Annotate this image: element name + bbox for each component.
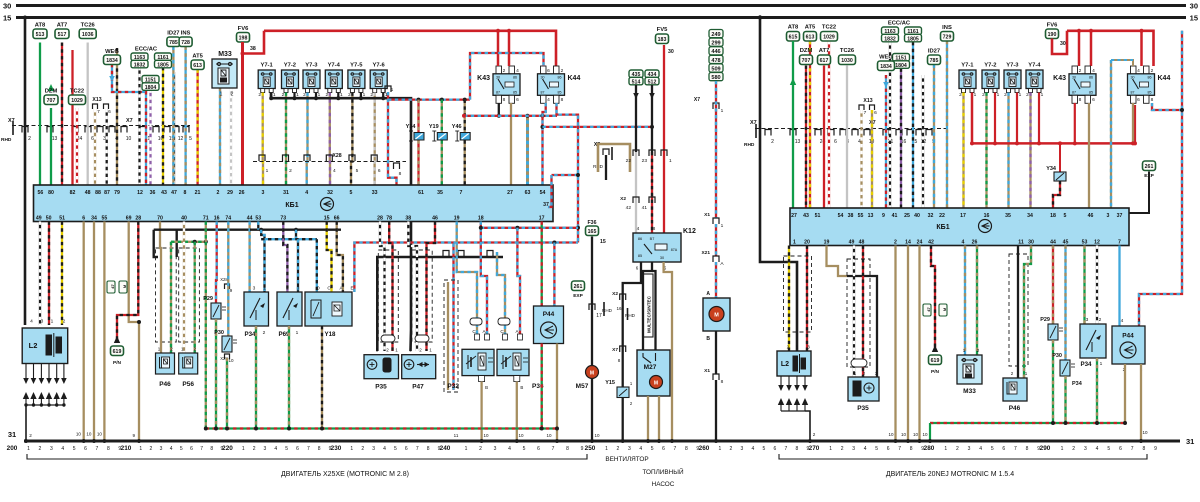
svg-text:Y34: Y34 (1046, 166, 1057, 172)
arrow 434 (649, 93, 655, 99)
svg-text:4: 4 (61, 446, 64, 452)
connector X7 right pin 12 (916, 130, 922, 136)
wire WEG blue-red (112, 64, 146, 185)
wire fan motor to X1-8 (715, 331, 717, 374)
svg-text:87: 87 (541, 91, 545, 95)
svg-text:41: 41 (642, 205, 648, 211)
sensor P34 left (244, 292, 269, 326)
svg-text:B7: B7 (650, 237, 655, 241)
wire pin73 to P69 pin2 (283, 222, 287, 293)
svg-text:Y46: Y46 (452, 124, 462, 130)
connector X7 right pin 4 (852, 130, 858, 136)
svg-text:87: 87 (1072, 91, 1076, 95)
wire K43 pin6 tan to pin 27 (510, 103, 512, 185)
arrow on DZM wire (48, 84, 54, 91)
svg-text:4: 4 (962, 240, 965, 246)
svg-text:ID27: ID27 (928, 49, 940, 55)
svg-text:6: 6 (405, 446, 408, 452)
wire INS right (946, 41, 948, 208)
svg-text:1: 1 (139, 446, 142, 452)
wire pin1r to L2 (788, 246, 790, 352)
svg-text:P44: P44 (543, 311, 555, 318)
svg-text:82: 82 (70, 190, 76, 196)
wire M57 to bus (591, 379, 593, 442)
label ID27 785 right (928, 55, 941, 65)
wire pin17 green-red (541, 222, 543, 307)
wire tan-black pin 79 (116, 48, 118, 185)
svg-text:K44: K44 (1158, 75, 1171, 82)
wire Y7-5 pin2 to X28 (351, 93, 352, 186)
svg-text:70: 70 (157, 216, 163, 222)
wire Y7 pin1 stub (382, 93, 384, 99)
svg-text:25: 25 (904, 213, 910, 219)
svg-text:15: 15 (600, 239, 606, 245)
svg-text:41: 41 (892, 213, 898, 219)
wire Y7 pin1 stub (337, 93, 339, 99)
wire shield black to P35r (847, 276, 877, 377)
wire tan-blue to pin 3 (1110, 60, 1112, 208)
label DZM 707 (44, 95, 58, 105)
svg-text:Y7-2: Y7-2 (284, 63, 296, 69)
wire Y7r pin1 red stub (1016, 93, 1018, 144)
red-blue link H1 (481, 227, 578, 229)
svg-text:15: 15 (1190, 14, 1198, 23)
svg-text:220: 220 (222, 445, 233, 452)
svg-text:2: 2 (1072, 446, 1075, 452)
label 261 EKP left (572, 281, 585, 291)
wire ID27 right (933, 65, 935, 209)
wire P30 out (226, 358, 228, 429)
svg-text:FV6: FV6 (238, 26, 249, 32)
svg-text:1805: 1805 (157, 62, 169, 68)
wire K44 pin8 down mid (557, 103, 579, 243)
svg-text:49: 49 (36, 216, 42, 222)
svg-text:74: 74 (225, 216, 231, 222)
svg-text:M: M (590, 371, 594, 377)
svg-text:8: 8 (1142, 446, 1145, 452)
wire X13-6 right (871, 110, 873, 208)
black branch right shield collector (411, 256, 503, 259)
wire screened red to Y18-E (354, 243, 453, 391)
label ECC/AC 1163 1832 (131, 53, 148, 61)
svg-text:AT7: AT7 (57, 23, 68, 29)
svg-text:4: 4 (333, 168, 336, 174)
svg-text:785: 785 (169, 40, 178, 46)
svg-text:210: 210 (121, 445, 132, 452)
svg-text:13: 13 (52, 136, 58, 142)
svg-text:B: B (485, 385, 488, 390)
connector X7 pin 1 fan (713, 103, 719, 109)
wire pin69 tan jog to bus (129, 222, 139, 442)
wire tan to bus right (918, 246, 920, 442)
connector X7 pin 5 (183, 127, 189, 133)
wire red drop K44r pin4 (1140, 31, 1143, 66)
label 435 514 (629, 70, 643, 78)
svg-text:4: 4 (1121, 318, 1124, 324)
wire K43r pin6 tan to pin46 (1088, 103, 1090, 208)
svg-text:86: 86 (638, 237, 642, 241)
label AT7 617 right (818, 55, 831, 65)
svg-text:1804: 1804 (895, 63, 907, 69)
svg-text:КБ1: КБ1 (936, 224, 949, 231)
svg-text:2: 2 (813, 432, 816, 437)
svg-text:P29: P29 (203, 296, 213, 302)
wire pin70 tan to P46 (160, 222, 161, 354)
svg-text:Y7-1: Y7-1 (961, 63, 974, 69)
svg-text:24: 24 (917, 240, 923, 246)
connector X7 pin 4 (109, 127, 115, 133)
wire 1804 right (900, 69, 902, 209)
wire P29 out (215, 319, 217, 429)
svg-text:15: 15 (324, 216, 330, 222)
label INS 729 right (941, 32, 954, 42)
svg-text:56: 56 (38, 190, 44, 196)
svg-text:Y7-6: Y7-6 (372, 63, 385, 69)
svg-text:53: 53 (255, 216, 261, 222)
svg-text:3: 3 (253, 286, 256, 292)
svg-text:12: 12 (178, 136, 184, 142)
svg-text:2: 2 (617, 446, 620, 452)
green collector line right (930, 422, 1125, 424)
label AT8 615 right (787, 32, 800, 42)
wire Y7-1 pin2 to X28 (262, 93, 265, 186)
red-blue riser with X28 pin 8 (388, 92, 397, 185)
wire Y7r-1 pin2 down (962, 93, 964, 209)
wire tan K44r pin6 (1132, 103, 1134, 143)
svg-text:55: 55 (102, 216, 108, 222)
label WEG 1834 right (878, 61, 895, 71)
fuel pump M57 (586, 366, 599, 379)
svg-text:53: 53 (1082, 240, 1088, 246)
svg-text:31: 31 (283, 190, 289, 196)
svg-text:3: 3 (628, 446, 631, 452)
svg-text:17: 17 (596, 313, 602, 319)
svg-text:DZM: DZM (45, 89, 58, 95)
svg-text:5: 5 (73, 446, 76, 452)
svg-text:27: 27 (507, 190, 513, 196)
svg-text:ECC/AC: ECC/AC (888, 21, 911, 27)
ignition coil L2 right (777, 351, 811, 376)
svg-text:86: 86 (1089, 76, 1093, 80)
svg-text:1: 1 (997, 92, 1000, 98)
wire K44 pin4 to pin 54 (543, 103, 546, 185)
wire L2 ground to bus (25, 405, 27, 441)
label FV5 183 (656, 34, 669, 44)
svg-text:P35: P35 (857, 405, 869, 412)
svg-text:615: 615 (789, 34, 798, 40)
svg-text:44: 44 (1050, 240, 1056, 246)
svg-text:183: 183 (658, 37, 667, 43)
red power bus top right half (1067, 31, 1154, 66)
svg-text:2: 2 (63, 319, 66, 325)
connector X7 pin 13 (47, 127, 53, 133)
svg-text:19: 19 (454, 216, 460, 222)
svg-text:18: 18 (478, 216, 484, 222)
svg-text:НАСОС: НАСОС (652, 481, 675, 488)
svg-text:86: 86 (1148, 76, 1152, 80)
svg-text:613: 613 (806, 34, 815, 40)
wire K12-2 black to M27 left (643, 262, 652, 350)
svg-text:26: 26 (239, 190, 245, 196)
svg-text:69: 69 (126, 216, 132, 222)
sensor P69 (277, 292, 302, 326)
connector X7 right pin 2 (765, 130, 771, 136)
svg-text:260: 260 (699, 445, 710, 452)
svg-text:M33: M33 (218, 51, 232, 58)
svg-text:AT7: AT7 (819, 48, 830, 54)
svg-text:198: 198 (239, 35, 248, 41)
svg-text:K12: K12 (683, 228, 696, 235)
screen box P47 pair (412, 250, 432, 342)
connector X28 row (dashed) (253, 161, 406, 163)
connector X7 right pin 6 (828, 130, 834, 136)
red-blue riser to K44 pin6 (470, 53, 544, 100)
svg-text:1: 1 (350, 446, 353, 452)
wire INS blue-tan (184, 47, 186, 186)
svg-text:P35: P35 (375, 384, 387, 391)
svg-text:17: 17 (960, 213, 966, 219)
svg-text:L2: L2 (781, 361, 789, 368)
svg-text:1: 1 (296, 330, 299, 336)
wire through Y19 (441, 100, 443, 185)
connector X2 pin 41 (649, 197, 655, 203)
svg-text:16: 16 (984, 213, 990, 219)
screen box P56 wires (179, 248, 200, 342)
label FV6 198 (237, 33, 250, 43)
svg-text:8: 8 (503, 97, 506, 103)
svg-text:435: 435 (632, 72, 641, 78)
wire Y7 pin1 stub (360, 93, 362, 99)
svg-text:707: 707 (802, 58, 811, 64)
svg-text:165: 165 (588, 229, 597, 235)
connector X7 pin 3 (97, 127, 103, 133)
svg-text:6: 6 (84, 446, 87, 452)
svg-text:Y7-3: Y7-3 (305, 63, 318, 69)
svg-text:5: 5 (350, 190, 353, 196)
wire black-white right (922, 75, 924, 208)
svg-text:20: 20 (804, 240, 810, 246)
wire: left edge black vertical to L2 (24, 18, 27, 326)
wire Y7-3 pin2 to X28 (306, 93, 309, 186)
red-blue link H2 (454, 241, 579, 243)
svg-text:6: 6 (378, 168, 381, 174)
wire Y7r pin1 red stub (1038, 93, 1040, 144)
svg-text:512: 512 (648, 79, 657, 85)
svg-text:1029: 1029 (823, 34, 835, 40)
wire to P69 pin3 (297, 239, 299, 292)
svg-text:WEG: WEG (105, 49, 119, 55)
black bus linking Y7 pin1 (271, 93, 411, 352)
svg-text:1161: 1161 (157, 55, 168, 61)
connector X28 pin 9 (225, 284, 230, 289)
ferrite P35r (851, 359, 867, 367)
black branch to P35 pin3 (377, 257, 411, 351)
connector X2 pin 42 (633, 197, 639, 203)
svg-text:32: 32 (928, 213, 934, 219)
svg-text:TC22: TC22 (70, 89, 84, 95)
svg-text:54: 54 (838, 213, 844, 219)
label AT5 613 (191, 60, 204, 70)
black shield collector left (154, 228, 250, 230)
svg-text:30: 30 (668, 49, 674, 55)
svg-text:8: 8 (427, 446, 430, 452)
label 1151 1804 right (893, 54, 910, 62)
svg-text:46: 46 (432, 216, 438, 222)
wire K12-5 tan to bus (664, 262, 672, 441)
ferrite P32 (470, 318, 482, 325)
wire M27 out left (647, 396, 649, 441)
svg-text:40: 40 (181, 216, 187, 222)
svg-text:17: 17 (539, 216, 545, 222)
label FV6 190 (1046, 29, 1059, 39)
wire to Y18 pin D (316, 239, 318, 292)
label WEG 1834 (104, 55, 121, 65)
svg-text:86: 86 (513, 76, 517, 80)
svg-text:27: 27 (791, 213, 797, 219)
connector X7 pin 15 (164, 127, 170, 133)
wire pin15 to Y18-C (327, 222, 332, 293)
svg-text:2: 2 (1099, 317, 1102, 323)
wire pin74 to P30 (227, 222, 228, 337)
svg-text:2: 2 (29, 433, 32, 438)
label ECC/AC 1161 1805 (155, 53, 172, 61)
wire M33-1 blue-tan (219, 88, 221, 185)
connector X28 pin 10 (225, 354, 230, 359)
svg-text:TC26: TC26 (840, 48, 855, 54)
svg-text:86: 86 (558, 76, 562, 80)
red-blue link to K12 feed (543, 126, 653, 128)
svg-text:240: 240 (440, 445, 451, 452)
svg-text:10: 10 (913, 432, 919, 437)
svg-text:10: 10 (76, 432, 82, 437)
svg-text:4: 4 (30, 319, 33, 325)
svg-text:X28: X28 (332, 153, 341, 159)
svg-text:7: 7 (898, 446, 901, 452)
svg-text:3: 3 (852, 446, 855, 452)
svg-text:ТОПЛИВНЫЙ: ТОПЛИВНЫЙ (642, 467, 684, 476)
svg-text:23: 23 (642, 158, 648, 164)
label 434 512 (645, 70, 659, 78)
svg-text:85: 85 (1148, 91, 1152, 95)
svg-text:8: 8 (561, 97, 564, 103)
svg-text:8: 8 (1151, 97, 1154, 103)
wire ID27 tan-blue (172, 47, 174, 186)
connector X28 pin (304, 155, 310, 161)
svg-text:1832: 1832 (884, 36, 896, 42)
wire pin66 to Y18-A (337, 222, 343, 293)
bracket engine 20NEJ (779, 454, 1147, 459)
svg-text:AT8: AT8 (788, 25, 799, 31)
svg-text:80: 80 (48, 190, 54, 196)
wire red drop K43 pin2 (497, 31, 500, 66)
wire pin45r to P30r (1064, 246, 1066, 361)
svg-text:WEG: WEG (879, 55, 893, 61)
svg-text:4: 4 (516, 68, 519, 74)
svg-text:3: 3 (741, 446, 744, 452)
label ECC/AC right 1163 1832 (882, 27, 899, 35)
svg-text:5: 5 (1107, 446, 1110, 452)
svg-text:3: 3 (1086, 317, 1089, 323)
svg-text:1805: 1805 (907, 36, 919, 42)
svg-text:3: 3 (1084, 446, 1087, 452)
svg-text:10: 10 (126, 136, 132, 142)
svg-text:DZM: DZM (800, 48, 813, 54)
striped collector (261, 238, 317, 240)
svg-text:INS: INS (181, 31, 191, 37)
svg-text:4: 4 (864, 446, 867, 452)
svg-text:Y18: Y18 (324, 331, 336, 338)
svg-text:3: 3 (264, 446, 267, 452)
svg-text:P/N: P/N (113, 360, 122, 366)
svg-text:10: 10 (483, 433, 489, 438)
svg-text:7: 7 (200, 446, 203, 452)
svg-text:X13: X13 (863, 98, 872, 104)
connector X28 pin 5 (349, 155, 355, 161)
svg-text:48: 48 (85, 190, 91, 196)
svg-text:7: 7 (97, 109, 100, 115)
svg-text:2: 2 (258, 92, 261, 98)
wire to fan motor (715, 262, 717, 298)
connector X28 pin 1 (259, 155, 265, 161)
connector X21 pin A (713, 256, 719, 262)
svg-text:2: 2 (479, 446, 482, 452)
junction pin63 on link (526, 114, 530, 118)
wire 514 gray lower (635, 152, 637, 233)
svg-text:9: 9 (132, 433, 135, 438)
connector X7 right pin 24 (815, 130, 821, 136)
svg-text:5: 5 (1064, 213, 1067, 219)
wire WEG right blue-red (885, 75, 887, 208)
junctions on red bus (496, 29, 500, 33)
wire red drop K43r pin4 (1090, 31, 1093, 66)
wire pin44r to P29r (1052, 246, 1054, 325)
wire pin49r to P35r (853, 246, 855, 378)
connector X7 pin 8 mid (620, 346, 626, 352)
svg-text:6: 6 (91, 136, 94, 142)
wire pin18 to P32-A (481, 222, 487, 335)
svg-text:30: 30 (1060, 41, 1066, 47)
svg-text:P34: P34 (1072, 381, 1083, 387)
svg-text:4: 4 (274, 446, 277, 452)
wire F36 black down (591, 237, 593, 366)
svg-text:12: 12 (1094, 240, 1100, 246)
junction H2 (552, 241, 556, 245)
svg-text:66: 66 (334, 216, 340, 222)
label AT8 513 (33, 29, 47, 39)
svg-text:22: 22 (939, 213, 945, 219)
svg-text:1030: 1030 (841, 58, 853, 64)
svg-text:71: 71 (203, 216, 209, 222)
wire Y7r pin1 red stub (994, 93, 996, 144)
svg-text:30: 30 (496, 76, 500, 80)
tan link corner (598, 144, 630, 172)
svg-text:5: 5 (189, 136, 192, 142)
svg-text:2: 2 (841, 446, 844, 452)
svg-text:280: 280 (924, 445, 935, 452)
svg-text:1: 1 (242, 446, 245, 452)
svg-text:28: 28 (377, 216, 383, 222)
connector X7 pin 16 (153, 127, 159, 133)
svg-text:85: 85 (1089, 91, 1093, 95)
wire L2 right ground to bus (805, 411, 810, 441)
svg-text:16: 16 (214, 216, 220, 222)
wire Y7r-3 pin2 down (1007, 93, 1009, 209)
svg-text:X7: X7 (694, 97, 700, 103)
wire pin7r lightblue to P44r (1118, 246, 1120, 327)
label 261 EXP right (1143, 161, 1156, 171)
svg-text:1151: 1151 (145, 77, 156, 83)
wire fan feed red-blue upper (715, 81, 717, 218)
